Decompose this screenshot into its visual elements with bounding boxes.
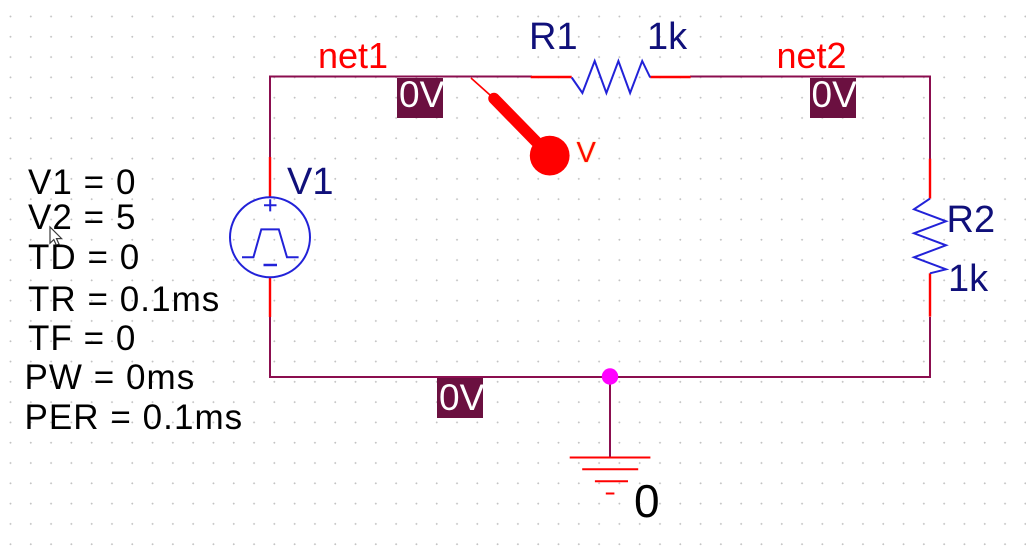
parameter text TR = 0.1ms <box>28 282 220 317</box>
wire left vertical lower <box>269 317 271 378</box>
bias voltage box 0V (net1) <box>397 78 443 118</box>
voltage probe tip circle <box>530 136 570 176</box>
parameter text V1 = 0 <box>28 165 136 200</box>
wire ground stub <box>609 377 611 457</box>
mouse cursor <box>50 227 62 245</box>
resistor R1 lead right <box>650 76 690 78</box>
resistor R2 lead top <box>929 159 931 199</box>
wire left vertical upper <box>269 76 271 158</box>
voltage source V1 lead bottom <box>269 278 271 318</box>
wire right vertical upper <box>929 76 931 160</box>
voltage probe thin lead line <box>471 78 490 95</box>
wire right vertical lower <box>929 317 931 377</box>
reference label V1 <box>287 163 333 201</box>
bias voltage box 0V (net2) <box>810 78 856 118</box>
ground net label 0 <box>634 478 660 524</box>
voltage source V1 pulse waveform <box>242 229 299 257</box>
voltage source V1 minus sign <box>264 264 278 267</box>
net label net1 <box>318 38 388 74</box>
parameter text V2 = 5 <box>28 200 136 235</box>
bias voltage box 0V (bottom net) <box>437 378 483 418</box>
voltage source V1 circle <box>230 197 310 277</box>
resistor R1 lead left <box>531 76 572 78</box>
wire top-left segment (net1) <box>269 76 532 78</box>
wire bottom horizontal <box>269 376 931 378</box>
voltage source V1 plus sign <box>264 199 277 211</box>
resistor R2 lead bottom <box>929 273 931 316</box>
wire top-right segment (net2) <box>690 76 931 78</box>
net label net2 <box>777 38 847 74</box>
parameter text TD = 0 <box>28 240 140 275</box>
ground symbol bar 4 <box>606 493 615 495</box>
resistor R1 zigzag <box>572 61 651 93</box>
value label 1k (R1) <box>647 18 687 56</box>
resistor R2 zigzag <box>914 199 946 274</box>
parameter text TF = 0 <box>28 321 136 356</box>
probe label V <box>577 139 596 168</box>
voltage source V1 lead top <box>269 157 271 198</box>
parameter text PW = 0ms <box>25 360 196 395</box>
ground symbol bar 2 <box>582 468 638 470</box>
ground symbol bar 1 <box>570 457 651 459</box>
value label 1k (R2) <box>948 260 988 298</box>
reference label R2 <box>947 201 996 239</box>
ground symbol bar 3 <box>595 480 628 482</box>
junction node dot at ground <box>602 368 618 384</box>
parameter text PER = 0.1ms <box>25 400 244 435</box>
voltage probe shaft <box>494 99 536 142</box>
reference label R1 <box>529 18 578 56</box>
